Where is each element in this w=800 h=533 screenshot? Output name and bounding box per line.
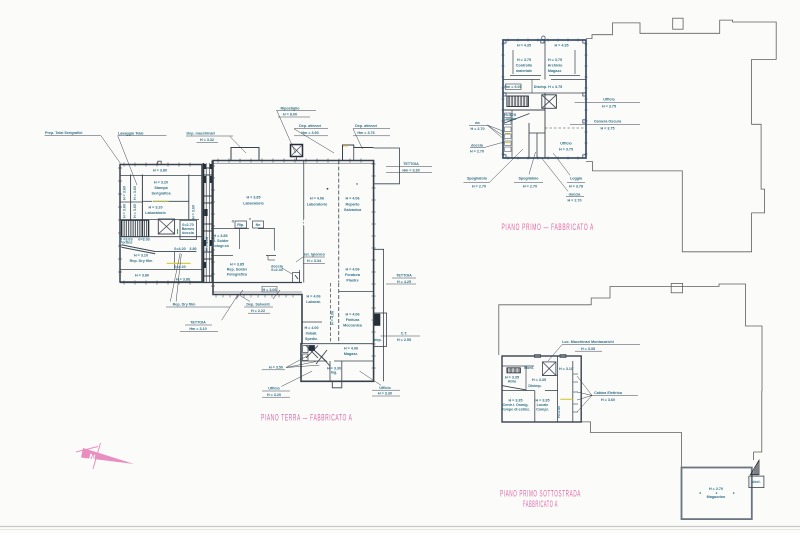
svg-text:H = 2.22: H = 2.22 <box>251 309 265 313</box>
svg-text:H = 3.75: H = 3.75 <box>602 104 616 108</box>
svg-text:H = 4.06: H = 4.06 <box>345 268 359 272</box>
svg-text:Dep. attrezzi: Dep. attrezzi <box>355 124 377 128</box>
svg-text:Ufficio: Ufficio <box>603 98 615 102</box>
svg-text:PIANO PRIMO SOTTOSTRADA: PIANO PRIMO SOTTOSTRADA <box>500 489 581 499</box>
svg-text:H = 3.35: H = 3.35 <box>532 378 546 382</box>
svg-text:PIANO TERRA — FABBRICATO A: PIANO TERRA — FABBRICATO A <box>261 413 353 423</box>
svg-text:H = 4.25: H = 4.25 <box>397 280 411 284</box>
svg-text:PIANO PRIMO — FABBRICATO A: PIANO PRIMO — FABBRICATO A <box>502 222 595 232</box>
svg-text:dep.: dep. <box>374 338 382 342</box>
svg-text:H = 3.34: H = 3.34 <box>307 259 322 263</box>
svg-text:Laboratorio: Laboratorio <box>145 211 166 215</box>
svg-text:0=2.44: 0=2.44 <box>271 268 283 272</box>
svg-text:Magazzino: Magazzino <box>707 495 726 499</box>
svg-text:Disimp.: Disimp. <box>528 384 541 388</box>
svg-text:Ufficio: Ufficio <box>560 142 572 146</box>
svg-text:0=3.03: 0=3.03 <box>138 238 149 242</box>
svg-text:H = 3.60: H = 3.60 <box>601 398 615 402</box>
svg-text:H = 4.35: H = 4.35 <box>554 44 568 48</box>
svg-text:H = 3.80: H = 3.80 <box>176 277 190 281</box>
svg-text:H = 3.75: H = 3.75 <box>600 126 614 130</box>
svg-text:H = 3.20: H = 3.20 <box>154 181 168 185</box>
svg-text:Archivio: Archivio <box>548 64 564 68</box>
svg-text:H = 2.70: H = 2.70 <box>709 487 723 491</box>
svg-text:H = 3.06: H = 3.06 <box>262 288 276 292</box>
svg-text:H = 3.85: H = 3.85 <box>213 234 227 238</box>
svg-text:TETTOIA: TETTOIA <box>190 321 206 325</box>
svg-text:H = 4.06: H = 4.06 <box>310 197 324 201</box>
svg-text:Spogliatoio: Spogliatoio <box>518 177 539 181</box>
svg-text:Piastre: Piastre <box>346 279 358 283</box>
svg-text:H = 4.35: H = 4.35 <box>517 44 531 48</box>
svg-text:H = 2.70: H = 2.70 <box>567 199 581 203</box>
svg-text:Fotografico: Fotografico <box>227 273 248 277</box>
svg-text:Spediz.: Spediz. <box>305 337 318 341</box>
svg-text:H = 3.35: H = 3.35 <box>535 399 549 403</box>
svg-text:Controllo: Controllo <box>516 64 533 68</box>
svg-text:Galvanica: Galvanica <box>344 208 362 212</box>
svg-text:H = 3.75: H = 3.75 <box>559 148 573 152</box>
svg-text:Foratura: Foratura <box>345 273 361 277</box>
svg-text:decl.: decl. <box>752 480 760 484</box>
svg-text:Compr.: Compr. <box>536 408 549 412</box>
svg-text:H = 4.06: H = 4.06 <box>331 311 335 325</box>
svg-text:Magazz.: Magazz. <box>548 69 562 73</box>
svg-text:Reparto: Reparto <box>346 203 361 207</box>
svg-text:H = 3.50: H = 3.50 <box>269 366 283 370</box>
svg-text:Atrio: Atrio <box>508 380 517 384</box>
svg-text:Rep. Dry film: Rep. Dry film <box>130 259 153 263</box>
svg-text:C.T.: C.T. <box>401 331 408 335</box>
svg-text:doccia: doccia <box>471 143 484 147</box>
svg-text:H = 3.60: H = 3.60 <box>133 204 137 218</box>
svg-text:Camera Oscura: Camera Oscura <box>594 120 622 124</box>
svg-text:H = 3.35: H = 3.35 <box>581 347 595 351</box>
svg-text:Fotogr.co: Fotogr.co <box>212 244 230 248</box>
svg-text:3.80: 3.80 <box>189 247 196 251</box>
svg-text:Ripostiglio: Ripostiglio <box>280 106 300 110</box>
svg-text:Serigrafica: Serigrafica <box>151 192 171 196</box>
svg-text:Stampa: Stampa <box>154 186 168 190</box>
svg-text:H = 3.10: H = 3.10 <box>559 367 573 371</box>
svg-text:doccia: doccia <box>182 231 195 235</box>
svg-text:Ing.: Ing. <box>331 371 338 375</box>
svg-text:Dep. Solventi: Dep. Solventi <box>246 303 269 307</box>
svg-text:Ne: Ne <box>256 223 261 227</box>
svg-text:Loggia: Loggia <box>504 117 517 121</box>
svg-text:Meccanica: Meccanica <box>343 324 363 328</box>
svg-text:Rep. Dry film: Rep. Dry film <box>173 303 196 307</box>
svg-text:Rip.: Rip. <box>237 223 244 227</box>
svg-text:Ufficio: Ufficio <box>379 386 391 390</box>
svg-text:Loc. Macchinari Montacarichi: Loc. Macchinari Montacarichi <box>562 340 614 344</box>
svg-text:H = 3.10: H = 3.10 <box>134 254 148 258</box>
svg-text:R. Solder: R. Solder <box>212 239 229 243</box>
svg-text:Hm = 3.30: Hm = 3.30 <box>402 169 419 173</box>
svg-text:Loggia: Loggia <box>570 177 583 181</box>
svg-text:Centr.i. Osmig.: Centr.i. Osmig. <box>502 403 528 407</box>
svg-text:wc: wc <box>474 121 480 125</box>
svg-text:H = 3.80: H = 3.80 <box>135 274 149 278</box>
svg-text:Laboratorio: Laboratorio <box>307 203 328 207</box>
svg-text:H = 4.06: H = 4.06 <box>345 197 359 201</box>
svg-text:H = 3.60: H = 3.60 <box>123 204 127 218</box>
svg-text:H = 3.20: H = 3.20 <box>148 206 162 210</box>
svg-text:Magazz.: Magazz. <box>344 352 358 356</box>
svg-text:H = 8.00: H = 8.00 <box>283 113 297 117</box>
svg-text:Hm = 3.10: Hm = 3.10 <box>189 327 206 331</box>
svg-text:H = 2.70: H = 2.70 <box>472 185 486 189</box>
svg-text:Dep. attrezzi: Dep. attrezzi <box>299 124 321 128</box>
svg-text:H = 3.80: H = 3.80 <box>153 169 167 173</box>
svg-text:TETTOIA: TETTOIA <box>403 162 419 166</box>
svg-text:H = 3.85: H = 3.85 <box>230 263 244 267</box>
svg-text:Laborat.: Laborat. <box>306 300 321 304</box>
svg-text:Prep. Telai Serigrafici: Prep. Telai Serigrafici <box>45 131 82 135</box>
svg-text:Dep. macchinari: Dep. macchinari <box>187 132 216 136</box>
svg-text:Finitura: Finitura <box>346 318 360 322</box>
svg-text:0=4.20: 0=4.20 <box>174 247 185 251</box>
svg-text:H = 2.55: H = 2.55 <box>397 338 411 342</box>
svg-text:Portico: Portico <box>120 241 133 245</box>
svg-text:H = 3.30: H = 3.30 <box>378 392 392 396</box>
svg-text:H = 3.85: H = 3.85 <box>246 196 260 200</box>
svg-text:Ser. Igienico: Ser. Igienico <box>303 253 325 257</box>
svg-text:Hm = 6.00: Hm = 6.00 <box>504 85 521 89</box>
svg-text:Cabina Elettrica: Cabina Elettrica <box>594 391 623 395</box>
svg-text:doccia: doccia <box>569 192 582 196</box>
svg-text:Laboratorio: Laboratorio <box>243 202 264 206</box>
svg-text:H = 3.60: H = 3.60 <box>123 186 127 200</box>
svg-text:materiale: materiale <box>516 69 532 73</box>
svg-text:H = 3.35: H = 3.35 <box>508 399 522 403</box>
svg-text:TETTOIA: TETTOIA <box>396 274 412 278</box>
svg-text:H = 4.06: H = 4.06 <box>344 347 358 351</box>
svg-text:Rep. Solder: Rep. Solder <box>227 268 248 272</box>
svg-text:Ufficio: Ufficio <box>268 387 280 391</box>
svg-text:Mont.: Mont. <box>524 366 534 370</box>
svg-text:Hm = 3.76: Hm = 3.76 <box>357 131 374 135</box>
svg-text:H = 3.60: H = 3.60 <box>192 205 196 219</box>
svg-text:H = 3.60: H = 3.60 <box>133 186 137 200</box>
svg-text:Locale: Locale <box>537 403 549 407</box>
svg-text:H = 3.75: H = 3.75 <box>548 58 562 62</box>
svg-text:H = 3.78: H = 3.78 <box>569 185 583 189</box>
svg-text:Spogliatoio: Spogliatoio <box>467 177 488 181</box>
svg-text:H = 4.00: H = 4.00 <box>304 326 318 330</box>
svg-text:Lavaggio Telai: Lavaggio Telai <box>118 131 143 135</box>
svg-text:Imball.: Imball. <box>306 332 318 336</box>
svg-text:H = 3.20: H = 3.20 <box>267 393 281 397</box>
svg-text:H=3.50: H=3.50 <box>557 406 561 418</box>
svg-text:FABBRICATO A: FABBRICATO A <box>523 499 558 509</box>
svg-text:Pompe di estinz.: Pompe di estinz. <box>501 408 530 412</box>
svg-text:H = 3.32: H = 3.32 <box>200 138 214 142</box>
svg-text:Disimp. H = 3.75: Disimp. H = 3.75 <box>534 85 562 89</box>
svg-text:H = 2.70: H = 2.70 <box>470 127 484 131</box>
svg-text:H = 4.06: H = 4.06 <box>306 295 320 299</box>
svg-text:H = 3.75: H = 3.75 <box>517 58 531 62</box>
svg-text:H = 2.70: H = 2.70 <box>470 150 484 154</box>
svg-text:H = 2.70: H = 2.70 <box>523 185 537 189</box>
svg-text:H = 4.06: H = 4.06 <box>345 313 359 317</box>
